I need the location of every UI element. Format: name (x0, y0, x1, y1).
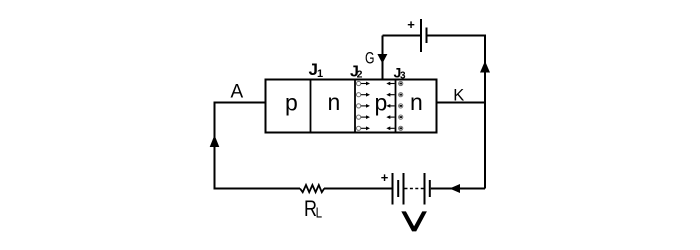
wire: anode lead A from left vertical to box (215, 103, 266, 189)
svg-text:2: 2 (357, 69, 363, 81)
svg-text:A: A (231, 82, 244, 103)
battery V plate short 1 (397, 180, 399, 197)
wire: bottom segment resistor to battery V (324, 188, 392, 190)
svg-text:K: K (453, 86, 465, 105)
wire: bottom segment battery to right vertical (431, 188, 485, 190)
junction J3 line (395, 80, 397, 133)
battery V plate tall 1 (392, 173, 394, 205)
holes at J2 (circle + right arrow) x5 (357, 81, 371, 130)
electron carrier symbol at J3, row 3 (386, 104, 403, 108)
svg-text:G: G (365, 48, 375, 67)
electron carrier symbol at J3, row 2 (386, 93, 403, 97)
label V (battery) (401, 211, 427, 231)
wire: top from battery to gate drop (383, 35, 422, 37)
wire: bottom left segment to resistor (214, 188, 301, 190)
hole carrier symbol at J2, row 3 (357, 104, 371, 108)
hole carrier symbol at J2, row 5 (357, 126, 371, 130)
gate battery plate short (426, 28, 428, 44)
svg-text:1: 1 (317, 68, 323, 80)
svg-text:+: + (381, 170, 389, 185)
arrow: current left on bottom wire (450, 184, 461, 193)
thyristor body box (266, 80, 437, 133)
electron carrier symbol at J3, row 5 (386, 126, 403, 130)
wire: cathode lead K (437, 102, 485, 104)
battery V plate short 2 (429, 180, 431, 197)
svg-text:+: + (407, 17, 415, 32)
arrow: gate current down (377, 54, 387, 64)
svg-text:n: n (328, 89, 341, 115)
wire: top from right vertical to battery (427, 35, 486, 37)
wire: gate vertical (382, 36, 384, 80)
battery V plate tall 2 (403, 173, 405, 205)
junction J2 line (354, 80, 356, 133)
junction J1 line (310, 80, 312, 133)
electron carrier symbol at J3, row 1 (386, 81, 403, 85)
hole carrier symbol at J2, row 2 (357, 93, 371, 97)
svg-text:p: p (375, 90, 388, 116)
svg-text:p: p (285, 90, 298, 116)
battery V dashed link (405, 188, 424, 190)
hole carrier symbol at J2, row 1 (357, 81, 371, 85)
resistor RL zigzag (300, 185, 324, 192)
arrow: current up on right vertical (480, 61, 490, 73)
svg-text:n: n (410, 89, 423, 115)
arrow: current up on left vertical (210, 135, 220, 147)
wire: right vertical (484, 36, 486, 189)
battery V plate tall 3 (424, 173, 426, 205)
electrons at J3 (left arrow + circled minus) x5 (386, 81, 403, 130)
hole carrier symbol at J2, row 4 (357, 115, 371, 119)
svg-text:L: L (316, 205, 323, 222)
electron carrier symbol at J3, row 4 (386, 115, 403, 119)
svg-text:3: 3 (400, 71, 406, 82)
gate battery plate tall (420, 19, 422, 52)
